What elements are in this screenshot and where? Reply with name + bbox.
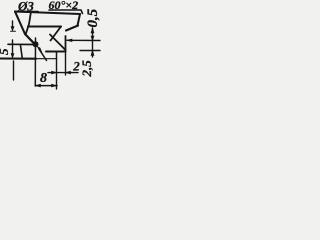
dim 8 right arrow [52, 84, 57, 87]
svg-text:8: 8 [40, 71, 47, 86]
right ext line y40.5 [67, 39, 100, 41]
label 2 [72, 59, 80, 74]
right dim vertical [92, 28, 94, 57]
cone axis to dot [25, 34, 33, 42]
dot vertical centerline / extension down [34, 38, 36, 86]
leader arrow from lower right to dot [39, 49, 47, 61]
label dia 3 [17, 0, 34, 14]
label 60 deg x2 [49, 0, 79, 12]
ext line x56.5 below [56, 59, 58, 90]
cone left wall [15, 12, 25, 35]
V notch upper arm [51, 27, 62, 41]
ext line x13.5 below [13, 61, 15, 80]
dim 5 top arrow [12, 21, 14, 28]
shelf line under 60x2 [49, 10, 83, 14]
right edge top [78, 14, 81, 26]
arrow up at top [91, 28, 94, 33]
bottom edge right [46, 51, 66, 53]
mid horizontal edge [28, 26, 61, 28]
dim 2 line [48, 72, 78, 74]
bottom edge left / extension [0, 57, 36, 59]
right ext line y50.5 [80, 50, 100, 52]
V notch lower arm [50, 35, 66, 51]
dot (center mark) [33, 41, 39, 47]
svg-text:5: 5 [0, 48, 11, 55]
dim 8 left arrow [36, 84, 41, 87]
ext line x65.5 below [65, 52, 67, 76]
left edge [21, 46, 23, 59]
step vertical [56, 52, 58, 59]
dim 2 right arrow [66, 71, 71, 74]
shelf underline dia3 [15, 11, 38, 13]
label 5 (rotated) [0, 48, 11, 55]
dot horizontal centerline [8, 43, 33, 45]
svg-text:0,5: 0,5 [85, 8, 101, 27]
arrow down to y40.5 [91, 36, 94, 41]
arrow up to y50.5 [91, 51, 94, 56]
dim 5 bottom arrow shaft [12, 40, 14, 54]
technical drawing: part section with conical recess and V-notch [0, 0, 105, 96]
cone right wall [26, 12, 31, 35]
right face of lower block [65, 36, 67, 52]
dim 8 line [36, 85, 58, 87]
dim 2 left arrow [52, 71, 57, 74]
beak diagonal [66, 26, 78, 31]
label 2,5 (rotated) [79, 60, 94, 78]
svg-text:2,5: 2,5 [79, 60, 94, 78]
label 0,5 (rotated) [85, 8, 101, 27]
label 8 [40, 71, 47, 86]
top edge [15, 12, 80, 15]
